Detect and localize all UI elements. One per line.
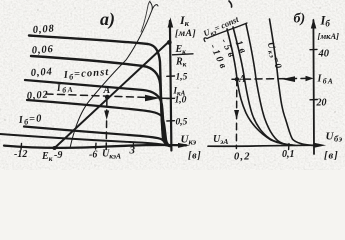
x-axis (right plot) xyxy=(208,145,320,146)
y tick 1,0 xyxy=(167,97,175,99)
svg-text:А: А xyxy=(238,74,246,85)
point A dot (left) xyxy=(105,95,110,100)
down arrowhead on vertical dashed xyxy=(104,111,109,121)
right arrow-tick at IбА on axis xyxy=(306,76,314,81)
svg-text:[мА]: [мА] xyxy=(175,29,196,39)
svg-text:1,5: 1,5 xyxy=(176,73,188,83)
load line foot dot xyxy=(53,146,57,150)
point A dot (right) xyxy=(235,77,239,81)
tick -12 xyxy=(20,144,23,150)
left arrowhead on dashed (right) xyxy=(282,76,296,82)
scan crease squiggle xyxy=(70,2,152,148)
load line top dot xyxy=(167,40,172,45)
svg-text:40: 40 xyxy=(318,49,330,60)
svg-text:-6: -6 xyxy=(89,150,97,161)
svg-text:0,02: 0,02 xyxy=(26,89,49,102)
y-axis arrowhead (left plot) xyxy=(168,17,174,27)
x-axis arrowhead (right plot) xyxy=(314,143,326,148)
y-axis (right plot) xyxy=(312,20,315,154)
y-axis arrowhead (right plot) xyxy=(311,19,317,29)
load line xyxy=(54,43,168,149)
curve Iб=0.08 xyxy=(29,36,170,146)
svg-text:20: 20 xyxy=(316,98,327,109)
tick 0,1 xyxy=(288,144,290,150)
svg-text:а): а) xyxy=(100,9,115,30)
svg-text:3: 3 xyxy=(129,145,136,157)
svg-text:-9: -9 xyxy=(54,150,62,161)
svg-text:0,04: 0,04 xyxy=(30,66,53,79)
curve Uкэ=0 xyxy=(270,19,314,145)
y-axis (left plot) xyxy=(170,21,172,151)
x-axis (left plot) xyxy=(4,145,186,148)
svg-text:-12: -12 xyxy=(14,149,27,160)
IбА arrowhead xyxy=(145,95,160,102)
svg-text:А: А xyxy=(103,85,111,96)
dashed IбА horizontal line xyxy=(46,94,156,98)
tick -6 xyxy=(95,143,97,149)
y tick 20 xyxy=(310,99,317,101)
svg-text:[мкА]: [мкА] xyxy=(318,31,340,41)
svg-text:0,5: 0,5 xyxy=(176,118,188,128)
dash to axis xyxy=(162,97,169,99)
curve Iб=0.06 xyxy=(31,56,170,146)
svg-text:[в]: [в] xyxy=(188,151,202,162)
curve Iб=0.02 xyxy=(27,100,170,146)
y tick 1,5 xyxy=(167,75,175,77)
faint scan specks xyxy=(4,7,335,165)
svg-text:0,08: 0,08 xyxy=(32,23,55,36)
squiggle top hook xyxy=(152,5,158,10)
y tick 40 xyxy=(310,48,317,50)
svg-text:0,2: 0,2 xyxy=(234,152,251,163)
svg-text:б): б) xyxy=(294,12,306,27)
svg-text:0,1: 0,1 xyxy=(282,149,295,160)
curve Uкэ=-5в xyxy=(233,27,293,145)
lowest curve xyxy=(0,134,170,146)
dashed IбА horizontal (right) xyxy=(232,77,306,80)
curve Iб=0.04 xyxy=(25,80,170,146)
svg-text:[в]: [в] xyxy=(324,151,339,162)
dashed vertical UбэА (right) xyxy=(235,79,237,148)
x-axis arrowhead (left plot) xyxy=(178,143,190,148)
stray comma mark top right xyxy=(229,1,232,7)
dashed vertical UкэА line xyxy=(105,99,108,151)
squiggle second strand xyxy=(141,1,150,32)
curve Uкэ=-10в xyxy=(227,29,295,145)
wavy underline under Uкэ=const xyxy=(204,23,247,42)
tick -3 xyxy=(132,143,134,147)
svg-text:0,06: 0,06 xyxy=(31,44,54,57)
curve Uкэ=-1в xyxy=(246,24,291,145)
paper background xyxy=(0,0,345,170)
curve Iб=0 xyxy=(24,127,170,147)
svg-text:1,0: 1,0 xyxy=(175,96,187,106)
down arrowhead on vertical dashed (right) xyxy=(234,110,239,120)
y tick 0,5 xyxy=(167,120,175,122)
